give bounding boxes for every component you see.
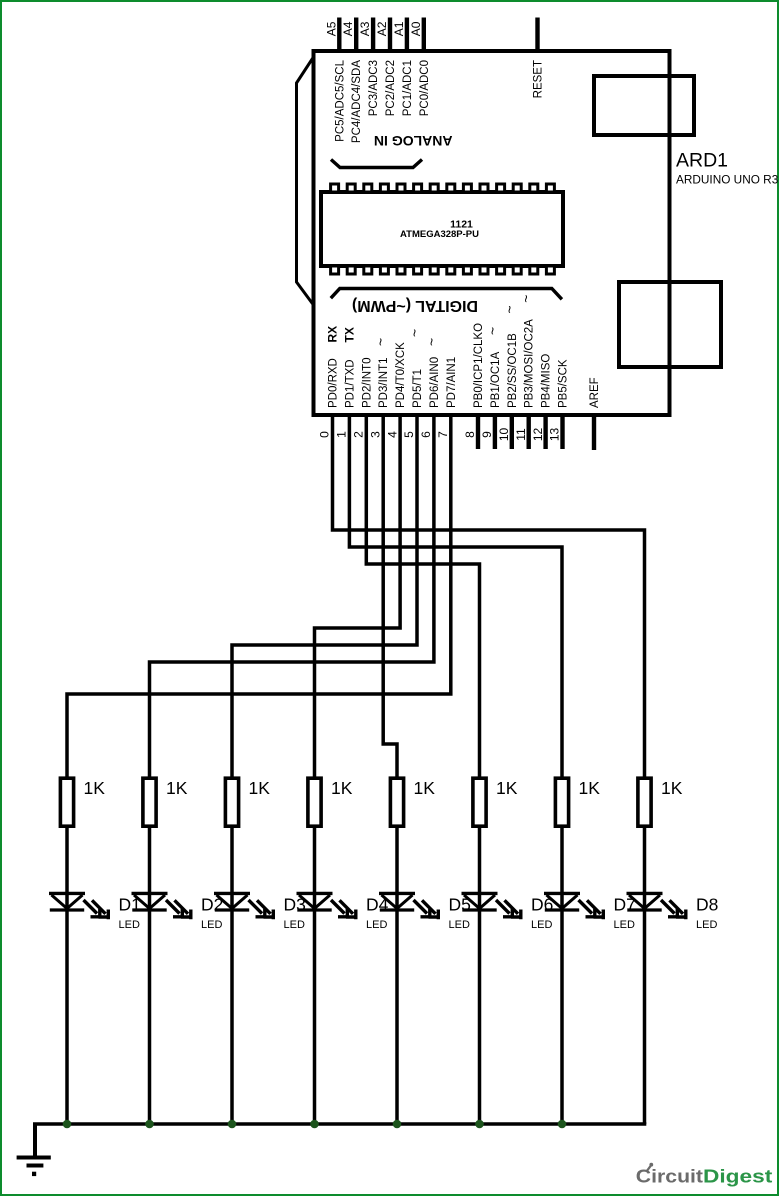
svg-text:PD5/T1: PD5/T1 — [412, 369, 424, 408]
svg-text:1K: 1K — [249, 778, 271, 798]
svg-text:D8: D8 — [696, 894, 718, 914]
svg-text:0: 0 — [318, 431, 332, 438]
svg-text:TX: TX — [342, 327, 356, 342]
svg-text:PC1/ADC1: PC1/ADC1 — [402, 60, 414, 116]
svg-text:PD2/INT0: PD2/INT0 — [361, 358, 373, 409]
svg-text:1K: 1K — [496, 778, 518, 798]
svg-text:11: 11 — [514, 428, 528, 441]
svg-text:PD6/AIN0: PD6/AIN0 — [429, 357, 441, 408]
svg-text:1K: 1K — [661, 778, 683, 798]
svg-text:PD3/INT1: PD3/INT1 — [378, 358, 390, 409]
svg-text:PC4/ADC4/SDA: PC4/ADC4/SDA — [351, 60, 363, 143]
svg-text:1K: 1K — [414, 778, 436, 798]
svg-text:LED: LED — [119, 919, 140, 931]
svg-text:LED: LED — [366, 919, 387, 931]
svg-text:LED: LED — [531, 919, 552, 931]
svg-text:PB5/SCK: PB5/SCK — [558, 359, 570, 408]
svg-text:PB4/MISO: PB4/MISO — [541, 354, 553, 408]
svg-text:10: 10 — [497, 428, 511, 442]
svg-text:6: 6 — [419, 431, 433, 438]
svg-text:PD7/AIN1: PD7/AIN1 — [446, 357, 458, 408]
svg-text:PB3/MOSI/OC2A: PB3/MOSI/OC2A — [524, 319, 536, 408]
svg-text:A1: A1 — [392, 21, 406, 36]
svg-text:1K: 1K — [166, 778, 188, 798]
svg-text:ARD1: ARD1 — [676, 150, 728, 172]
svg-text:LED: LED — [201, 919, 222, 931]
svg-text:7: 7 — [436, 431, 450, 438]
svg-text:A0: A0 — [409, 21, 423, 36]
svg-text:~: ~ — [373, 338, 389, 346]
svg-text:9: 9 — [480, 431, 494, 438]
svg-text:PC5/ADC5/SCL: PC5/ADC5/SCL — [334, 59, 346, 141]
svg-text:LED: LED — [696, 919, 717, 931]
svg-text:A4: A4 — [341, 21, 355, 36]
svg-text:DIGITAL (~PWM): DIGITAL (~PWM) — [352, 297, 478, 314]
svg-text:ATMEGA328P-PU: ATMEGA328P-PU — [400, 229, 479, 240]
svg-text:Circuit: Circuit — [636, 1167, 703, 1187]
svg-text:PB2/SS/OC1B: PB2/SS/OC1B — [507, 333, 519, 408]
svg-text:LED: LED — [614, 919, 635, 931]
svg-text:PB1/OC1A: PB1/OC1A — [490, 351, 502, 408]
svg-text:1K: 1K — [84, 778, 106, 798]
svg-text:~: ~ — [407, 329, 423, 337]
svg-text:AREF: AREF — [589, 377, 601, 408]
svg-text:~: ~ — [501, 305, 517, 313]
svg-text:RX: RX — [326, 326, 340, 343]
svg-text:4: 4 — [385, 431, 399, 438]
svg-text:PD1/TXD: PD1/TXD — [344, 359, 356, 408]
svg-text:1K: 1K — [331, 778, 353, 798]
svg-text:LED: LED — [449, 919, 470, 931]
svg-text:A3: A3 — [358, 21, 372, 36]
svg-text:RESET: RESET — [533, 60, 545, 98]
svg-text:A5: A5 — [324, 21, 338, 36]
svg-text:~: ~ — [423, 338, 439, 346]
svg-text:PD0/RXD: PD0/RXD — [328, 358, 340, 408]
svg-text:~: ~ — [518, 295, 534, 303]
svg-text:Digest: Digest — [703, 1167, 772, 1187]
svg-text:PB0/ICP1/CLKO: PB0/ICP1/CLKO — [473, 323, 485, 408]
svg-text:PD4/T0/XCK: PD4/T0/XCK — [395, 342, 407, 408]
svg-text:8: 8 — [463, 431, 477, 438]
svg-text:ARDUINO UNO R3: ARDUINO UNO R3 — [676, 173, 779, 187]
svg-text:PC0/ADC0: PC0/ADC0 — [419, 60, 431, 116]
svg-text:2: 2 — [352, 431, 366, 438]
svg-text:3: 3 — [368, 431, 382, 438]
svg-text:LED: LED — [284, 919, 305, 931]
svg-text:5: 5 — [402, 431, 416, 438]
svg-text:PC3/ADC3: PC3/ADC3 — [368, 60, 380, 116]
svg-text:13: 13 — [548, 428, 562, 442]
svg-text:1K: 1K — [579, 778, 601, 798]
svg-text:~: ~ — [484, 327, 500, 335]
svg-text:ANALOG IN: ANALOG IN — [374, 133, 453, 149]
svg-text:A2: A2 — [375, 21, 389, 36]
svg-text:PC2/ADC2: PC2/ADC2 — [385, 60, 397, 116]
svg-text:12: 12 — [531, 428, 545, 442]
svg-text:1: 1 — [335, 431, 349, 438]
